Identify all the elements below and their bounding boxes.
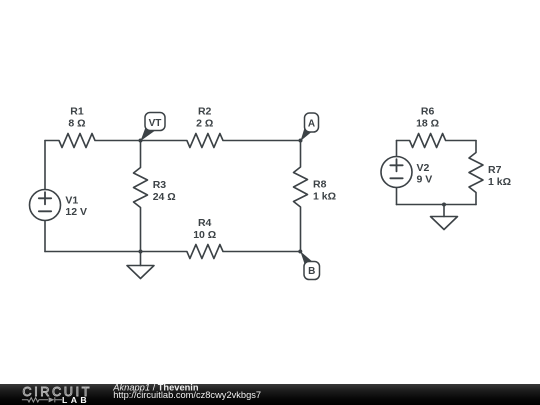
svg-text:V1: V1	[65, 195, 78, 207]
svg-text:B: B	[308, 266, 315, 277]
svg-text:LAB: LAB	[62, 395, 90, 405]
svg-text:R7: R7	[488, 164, 502, 176]
svg-text:1 kΩ: 1 kΩ	[313, 191, 336, 203]
svg-text:R8: R8	[313, 179, 327, 191]
svg-text:R2: R2	[198, 106, 212, 118]
svg-text:12 V: 12 V	[65, 206, 87, 218]
svg-text:2 Ω: 2 Ω	[196, 117, 213, 129]
svg-text:V2: V2	[417, 162, 430, 174]
svg-text:9 V: 9 V	[417, 174, 433, 186]
svg-text:http://circuitlab.com/cz8cwy2v: http://circuitlab.com/cz8cwy2vkbgs7	[113, 390, 261, 400]
svg-text:R1: R1	[70, 106, 84, 118]
svg-text:24 Ω: 24 Ω	[153, 191, 176, 203]
svg-text:R4: R4	[198, 217, 212, 229]
svg-text:1 kΩ: 1 kΩ	[488, 176, 511, 188]
svg-text:18 Ω: 18 Ω	[416, 117, 439, 129]
svg-text:R6: R6	[421, 106, 435, 118]
svg-text:A: A	[308, 118, 315, 129]
svg-text:8 Ω: 8 Ω	[68, 117, 85, 129]
svg-text:10 Ω: 10 Ω	[193, 229, 216, 241]
svg-text:R3: R3	[153, 179, 167, 191]
svg-text:VT: VT	[149, 118, 162, 129]
